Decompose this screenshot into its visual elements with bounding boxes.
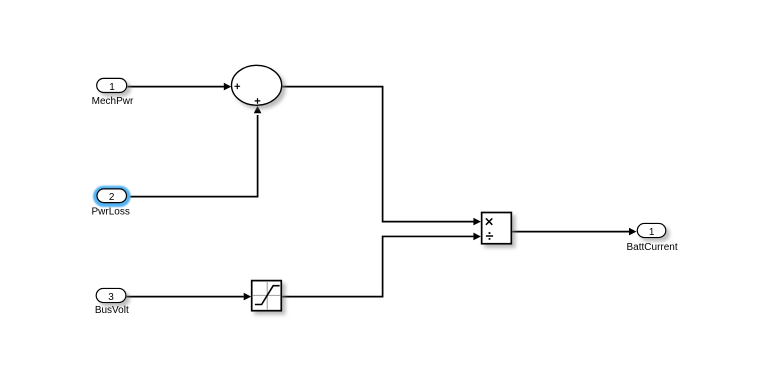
svg-text:MechPwr: MechPwr xyxy=(92,96,134,107)
svg-text:2: 2 xyxy=(109,192,115,203)
svg-text:PwrLoss: PwrLoss xyxy=(92,206,130,217)
svg-text:BusVolt: BusVolt xyxy=(95,305,129,316)
svg-text:1: 1 xyxy=(649,227,655,238)
svg-text:1: 1 xyxy=(109,82,115,93)
svg-text:3: 3 xyxy=(108,292,114,303)
svg-text:BattCurrent: BattCurrent xyxy=(627,242,678,253)
